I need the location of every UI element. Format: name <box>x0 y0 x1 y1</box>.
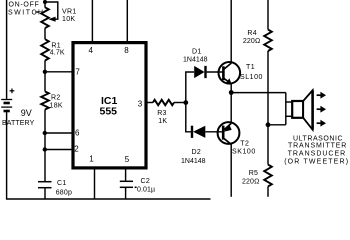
resistor R2 18K <box>41 92 49 110</box>
wire C1 to bottom rail <box>44 188 46 199</box>
wire pin 8 <box>126 0 128 41</box>
svg-text:D1: D1 <box>192 48 202 55</box>
wire T2 collector to bottom rail <box>230 144 232 197</box>
svg-text:R5: R5 <box>249 170 259 177</box>
node VR1 top junction dot <box>43 0 47 4</box>
wire transducer terminal link <box>285 93 287 125</box>
svg-text:T1: T1 <box>246 64 255 71</box>
wire node down to D2 <box>186 103 191 132</box>
wire pin 5 <box>125 169 127 181</box>
svg-text:1K: 1K <box>158 118 167 125</box>
svg-text:VR1: VR1 <box>62 9 77 16</box>
node junction pin6 <box>43 131 47 135</box>
resistor R5 220ohm <box>264 165 272 187</box>
svg-text:1N4148: 1N4148 <box>183 56 208 63</box>
svg-text:8: 8 <box>124 46 129 55</box>
sound arrow 3 <box>317 120 326 127</box>
node diode drive junction <box>183 100 188 105</box>
svg-text:4: 4 <box>89 46 94 55</box>
wire stub to driver bottom <box>286 115 292 117</box>
wire R3 to node <box>174 102 186 104</box>
wire VR1 top feed <box>44 0 46 8</box>
capacitor C2 0.01u <box>120 181 137 187</box>
label battery plus <box>10 89 15 94</box>
node junction pin2 <box>43 147 47 151</box>
wire C2 to bottom rail <box>125 188 127 200</box>
svg-text:SL100: SL100 <box>240 74 263 81</box>
battery B1 9V <box>1 100 12 112</box>
potentiometer VR1 10K (zigzag) <box>41 7 49 28</box>
node junction R1/R2/pin7 <box>43 70 47 74</box>
svg-text:5: 5 <box>125 155 130 164</box>
capacitor C1 680p <box>38 182 52 188</box>
node R4/R5/speaker junction <box>266 122 271 127</box>
wire T1 collector to top <box>230 0 232 63</box>
svg-text:3: 3 <box>138 100 143 109</box>
wire R2 to C1 <box>44 110 46 182</box>
node emitters output junction <box>229 90 234 95</box>
sound arrow 1 <box>317 92 326 99</box>
svg-text:C1: C1 <box>57 180 67 187</box>
wire pin 4 <box>91 0 93 41</box>
sound arrow 2 <box>317 106 326 113</box>
svg-text:1N4148: 1N4148 <box>181 158 206 165</box>
svg-text:R3: R3 <box>157 110 167 117</box>
resistor R1 4.7K <box>41 39 49 60</box>
wire pin 1 <box>94 169 96 200</box>
svg-text:(OR TWEETER): (OR TWEETER) <box>284 158 349 165</box>
wire pin 7 <box>45 71 72 73</box>
svg-text:555: 555 <box>100 106 118 118</box>
svg-text:C2: C2 <box>141 178 151 185</box>
svg-text:4.7K: 4.7K <box>50 49 65 56</box>
wire T1 emitter down <box>230 84 232 123</box>
wire pin 6 <box>45 132 72 134</box>
resistor R3 1K (horizontal zigzag) <box>153 100 174 105</box>
svg-text:0.01µ: 0.01µ <box>137 187 155 194</box>
wire node up to D1 <box>186 72 194 103</box>
svg-text:TRANSDUCER: TRANSDUCER <box>288 150 347 157</box>
wire stub to driver top <box>286 101 292 103</box>
svg-text:18K: 18K <box>50 102 63 109</box>
svg-text:R4: R4 <box>247 30 257 37</box>
speaker LS1 driver box <box>292 101 303 118</box>
VR1 wiper arrow head <box>48 17 55 22</box>
op-amp / timer IC1 555 box <box>73 43 146 168</box>
svg-text:7: 7 <box>75 68 80 77</box>
diode D2 1N4148 <box>191 126 193 138</box>
wire battery positive rail (left vertical) <box>6 0 8 99</box>
bottom ground rail <box>6 198 211 200</box>
transistor T2 SK100 (PNP) <box>218 122 240 144</box>
wire pin 2 <box>45 149 72 151</box>
wire pin 3 <box>146 102 153 104</box>
svg-text:ON-OFF: ON-OFF <box>9 2 40 9</box>
speaker LS1 cone <box>303 90 312 129</box>
svg-text:220Ω: 220Ω <box>243 38 260 45</box>
wire VR1 wiper loop <box>45 2 58 19</box>
wire VR1 to R1 <box>44 28 46 39</box>
svg-text:10K: 10K <box>62 16 75 23</box>
svg-text:1: 1 <box>89 154 94 163</box>
svg-text:9V: 9V <box>21 108 32 118</box>
svg-text:2: 2 <box>74 145 79 154</box>
transistor T1 SL100 (NPN) <box>219 62 241 84</box>
svg-text:TRANSMITTER: TRANSMITTER <box>288 143 347 150</box>
wire R4 to junction <box>267 51 269 165</box>
svg-text:R2: R2 <box>51 95 61 102</box>
svg-text:T2: T2 <box>240 141 249 148</box>
svg-text:ULTRASONIC: ULTRASONIC <box>293 136 343 143</box>
svg-text:D2: D2 <box>192 149 202 156</box>
svg-text:6: 6 <box>75 129 80 138</box>
label switch pointer dash <box>35 11 39 13</box>
wire battery negative to bottom rail <box>6 112 8 200</box>
diode D1 1N4148 <box>194 66 204 78</box>
svg-text:220Ω: 220Ω <box>242 179 259 186</box>
wire D1 to T1 base <box>207 71 223 73</box>
svg-text:680p: 680p <box>56 190 72 197</box>
svg-text:SWITCH: SWITCH <box>8 10 45 17</box>
wire emitter node to transducer top <box>231 92 286 94</box>
wire R5 to bottom rail <box>267 186 269 196</box>
wire R4 top feed <box>267 0 269 30</box>
wire D2 to T2 base <box>205 131 223 133</box>
svg-text:BATTERY: BATTERY <box>2 120 35 127</box>
wire junction to transducer bottom <box>268 124 286 126</box>
wire R1 to node pin7 <box>44 60 46 91</box>
svg-text:SK100: SK100 <box>232 149 256 156</box>
resistor R4 220ohm <box>264 30 272 51</box>
